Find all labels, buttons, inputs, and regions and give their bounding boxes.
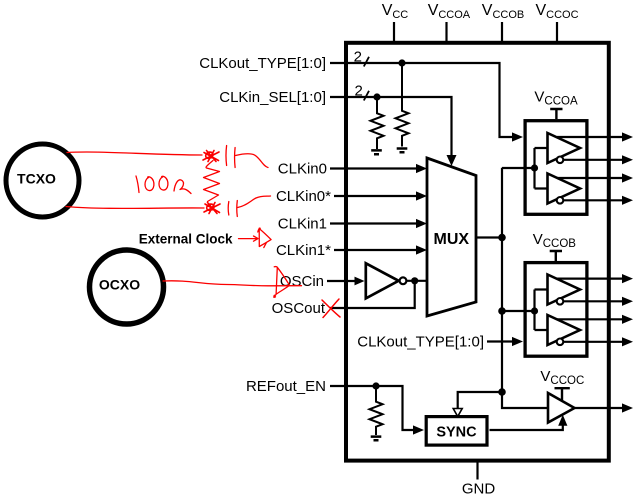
oscillator TCXO	[6, 144, 79, 217]
cross-out X on OSCout	[322, 299, 340, 318]
block SYNC	[426, 417, 487, 446]
power tee bank A	[550, 109, 562, 119]
wire CLKin_SEL bus to MUX select	[330, 97, 452, 156]
node trunk-SYNC junction	[498, 388, 506, 396]
bubble A2-	[557, 197, 564, 204]
arrow into bank A	[512, 132, 523, 141]
wire SYNC output to buffer C	[490, 424, 563, 430]
wire MUX output to trunk	[476, 236, 502, 238]
svg-text:OSCout: OSCout	[272, 300, 326, 317]
wire output REFout	[575, 407, 624, 409]
svg-text:MUX: MUX	[434, 231, 470, 248]
output bank A block	[525, 121, 587, 215]
svg-text:REFout_EN: REFout_EN	[246, 378, 326, 395]
pin VCCOA	[428, 2, 471, 42]
node junction on CLKin_SEL bus	[373, 93, 380, 100]
wire clock trunk	[502, 168, 548, 408]
bus width marker 2	[354, 48, 369, 66]
bus width marker 2	[355, 83, 370, 101]
bubble B1-	[557, 298, 564, 305]
ground for R2	[397, 149, 408, 153]
wire trunk to SYNC top	[458, 392, 502, 408]
svg-text:CLKin_SEL[1:0]: CLKin_SEL[1:0]	[219, 89, 326, 106]
wire bank B input tree	[502, 290, 548, 331]
wire REFout_EN to SYNC	[330, 386, 414, 430]
svg-text:CLKin0: CLKin0	[278, 161, 327, 178]
svg-text:GND: GND	[462, 481, 496, 498]
node junction on CLKout_TYPE bus	[398, 59, 405, 66]
svg-text:CLKin0*: CLKin0*	[276, 188, 331, 205]
node trunk-bankB junction	[498, 307, 506, 315]
wire output B2-	[563, 341, 623, 343]
wire output A1+	[557, 136, 623, 138]
op-amp OSCin input buffer	[366, 263, 399, 298]
wire output B1-	[563, 300, 623, 302]
node scribble junction top	[203, 151, 219, 162]
pin VCCOB	[482, 2, 524, 42]
node junction REFout_EN	[372, 382, 379, 389]
node junction OSCin buffer output	[411, 277, 418, 284]
buffer C (REFout)	[548, 393, 575, 423]
wire CLKout_TYPE to bank B	[487, 340, 513, 342]
resistor pulldown R2	[396, 63, 409, 147]
node trunk-MUX junction	[498, 234, 506, 242]
capacitor C2	[228, 201, 237, 217]
wire bank A input tree	[502, 148, 548, 189]
svg-text:SYNC: SYNC	[436, 425, 477, 441]
wire CLKin0* into MUX	[334, 195, 418, 197]
IC boundary box U1	[346, 43, 609, 461]
buffer A2	[548, 174, 581, 204]
pin GND	[462, 461, 496, 498]
value label 100ohm	[136, 176, 191, 194]
resistor pulldown R1	[371, 97, 384, 149]
bubble A1-	[557, 157, 564, 164]
oscillator OCXO	[90, 250, 164, 324]
inverter bubble	[400, 277, 407, 284]
wire CLKout_TYPE bus to bank A	[330, 63, 513, 137]
svg-text:2: 2	[354, 48, 362, 65]
wire output A2+	[557, 177, 623, 179]
wire output B1+	[557, 278, 623, 280]
output bank B block	[525, 263, 587, 357]
ground for R3	[371, 437, 382, 441]
wire CLKin0 into MUX	[330, 167, 418, 169]
bubble B2-	[557, 339, 564, 346]
svg-text:CLKout_TYPE[1:0]: CLKout_TYPE[1:0]	[199, 55, 326, 72]
multiplexer MUX	[427, 158, 476, 316]
resistor pulldown R3	[370, 386, 383, 435]
node scribble junction bottom	[204, 203, 220, 214]
pin VCCOC	[536, 2, 579, 42]
svg-text:TCXO: TCXO	[17, 171, 56, 187]
annotation triangle at CLKin1	[258, 228, 271, 247]
buffer A1	[548, 133, 581, 163]
wire C2 to CLKin0*	[238, 196, 271, 208]
wire TCXO- to junction	[66, 207, 204, 209]
wire OSCin into buffer	[327, 280, 355, 282]
svg-text:CLKin1*: CLKin1*	[276, 242, 331, 259]
resistor termination 100ohm	[204, 161, 220, 202]
wire TCXO+ to junction	[67, 152, 202, 155]
wire output B2+	[557, 318, 623, 320]
wire buffer output to MUX	[406, 280, 427, 282]
capacitor C1	[226, 146, 235, 168]
red annotations	[66, 146, 340, 318]
svg-text:CLKin1: CLKin1	[278, 216, 327, 233]
wire OSCout feedback	[330, 281, 415, 308]
arrow External Clock pointer	[239, 236, 259, 241]
node bank A input junction	[531, 164, 538, 171]
buffer B2	[548, 315, 581, 345]
wire CLKin1 into MUX	[330, 222, 418, 224]
pin VCC	[382, 2, 409, 42]
buffer B1	[548, 275, 581, 305]
svg-text:External Clock: External Clock	[139, 232, 233, 247]
ground for R1	[371, 150, 382, 154]
arrow into MUX select	[447, 155, 457, 166]
wire output A2-	[563, 199, 623, 201]
svg-text:CLKout_TYPE[1:0]: CLKout_TYPE[1:0]	[357, 334, 484, 351]
annotation triangle at OSCin	[274, 267, 290, 298]
open arrow into SYNC	[453, 409, 462, 417]
svg-text:2: 2	[355, 83, 363, 100]
wire C1 to CLKin0	[236, 154, 269, 168]
wire output A1-	[563, 159, 623, 161]
power tee bank B	[550, 251, 562, 262]
node bank B input junction	[531, 307, 538, 314]
wire CLKin1* into MUX	[334, 249, 418, 251]
power tee buffer C	[555, 388, 570, 400]
wire OCXO to OSCin	[163, 281, 302, 286]
svg-text:OCXO: OCXO	[99, 277, 140, 293]
